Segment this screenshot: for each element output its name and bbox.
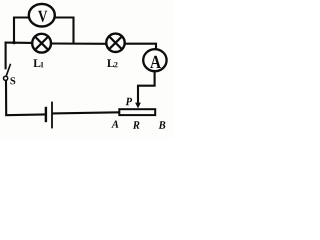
wire <box>6 42 32 44</box>
wire <box>14 18 29 44</box>
wire <box>125 44 156 49</box>
label B <box>159 121 166 129</box>
wire <box>56 18 74 44</box>
label L1 <box>33 59 43 67</box>
wire <box>52 42 106 44</box>
label R <box>133 121 140 129</box>
label S <box>10 77 15 84</box>
voltmeter V <box>29 4 55 27</box>
node junction dot <box>12 41 15 44</box>
wire <box>53 112 119 113</box>
wire <box>5 43 7 69</box>
wire <box>138 72 155 104</box>
battery cell <box>46 103 52 128</box>
switch S <box>4 65 11 81</box>
label L2 <box>107 59 117 67</box>
label P <box>126 98 132 105</box>
rheostat R body <box>119 109 155 115</box>
ammeter A <box>143 49 166 71</box>
lamp L2 <box>106 34 124 52</box>
wire <box>6 80 45 116</box>
slider arrow P <box>135 103 141 109</box>
label A terminal <box>111 121 118 128</box>
lamp L1 <box>32 34 51 53</box>
